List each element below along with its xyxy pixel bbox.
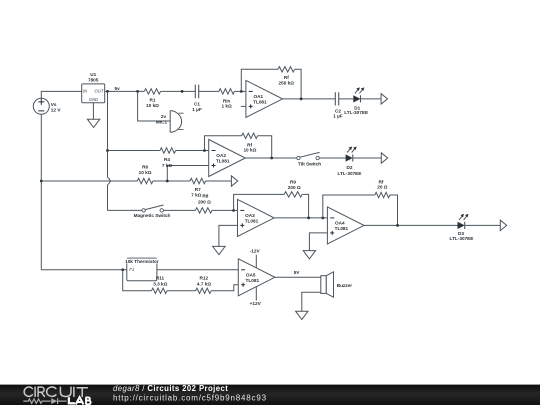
wire OA5 positive supply pin (255, 287, 257, 301)
wire Rin to OA1 inverting input (234, 90, 246, 92)
svg-text:LTL-307EE: LTL-307EE (344, 110, 368, 115)
voltage source VS 12V (33, 98, 61, 114)
svg-text:R9: R9 (290, 179, 296, 184)
svg-text:4.7 kΩ: 4.7 kΩ (197, 281, 211, 286)
wire lower branch to R11 (123, 270, 152, 291)
svg-text:OUT: OUT (95, 89, 104, 94)
wire R6 to R7 (153, 180, 190, 182)
svg-text:OA4: OA4 (335, 220, 345, 225)
svg-text:LTL-307EE: LTL-307EE (338, 171, 362, 176)
op-amp OA4 TL081 (327, 207, 364, 244)
svg-text:C1: C1 (194, 102, 200, 107)
op-amp OA1 TL081 (246, 80, 283, 117)
resistor R1 10k (144, 89, 160, 109)
feedback wire OA4 (323, 195, 398, 225)
svg-text:D2: D2 (347, 165, 353, 170)
wire R1 to C1 (161, 90, 196, 92)
junction OA4 feedback node (321, 217, 324, 220)
svg-text:200 Ω: 200 Ω (288, 185, 301, 190)
resistor R4 7k (160, 148, 176, 162)
LED D3 LTL-307EE (450, 214, 474, 241)
svg-text:-12V: -12V (250, 249, 261, 254)
resistor Rin 1k (219, 89, 235, 109)
wire switch to R8 (163, 209, 195, 211)
junction rail row2 (106, 149, 109, 152)
svg-text:TL081: TL081 (335, 226, 349, 231)
resistor Rf 20 ohm (OA4 feedback) (375, 180, 390, 198)
regulator U1 7805 (82, 72, 105, 103)
svg-text:C2: C2 (335, 108, 341, 113)
wire OA3 output to OA4 (274, 217, 327, 219)
svg-text:R6: R6 (142, 164, 148, 169)
wire rail to R6 (41, 180, 137, 182)
LED D2 LTL-307EE (338, 147, 362, 176)
svg-text:GND: GND (89, 97, 98, 102)
svg-text:12 V: 12 V (51, 108, 62, 113)
wire rail to R4 (108, 150, 161, 152)
svg-text:R12: R12 (199, 276, 208, 281)
thermistor F1 10k box (123, 258, 160, 281)
wire R4 to OA2 inverting input (176, 150, 209, 152)
junction left rail row R6 (40, 180, 43, 183)
ground OA4 (303, 251, 315, 259)
svg-text:+12V: +12V (250, 301, 262, 306)
op-amp OA2 TL081 (209, 140, 246, 177)
junction OA3 output/feedback (307, 217, 310, 220)
wire to microphone MIC1 (138, 91, 171, 121)
output port row1 (381, 94, 387, 104)
ground below U1 (87, 119, 99, 127)
wire C2 to D1 (339, 98, 354, 100)
svg-text:5v: 5v (115, 86, 121, 91)
feedback wire OA3 (234, 194, 309, 218)
resistor Rf 10k (OA2 feedback) (242, 133, 258, 152)
capacitor C2 1uF (333, 92, 343, 118)
resistor R7 7k (190, 178, 206, 197)
svg-text:Magnetic Switch: Magnetic Switch (134, 213, 171, 218)
wire thermistor to OA5 inverting input (157, 269, 238, 271)
svg-text:Rf: Rf (284, 75, 289, 80)
svg-text:OA1: OA1 (254, 94, 264, 99)
wire C1 to Rin (199, 90, 219, 92)
wire tilt switch to D2 (319, 157, 345, 159)
feedback wire OA2 (205, 136, 272, 158)
ground OA3 (213, 246, 225, 254)
output port R7 (231, 176, 237, 186)
CircuitLab logo squiggle (resistor + diode) (23, 398, 66, 404)
output port row3 (500, 220, 506, 230)
svg-text:Buzzer: Buzzer (337, 283, 353, 288)
svg-text:OA3: OA3 (245, 213, 255, 218)
wire buzzer to ground (302, 292, 321, 311)
capacitor C1 1uF (192, 85, 202, 112)
junction OA4 output/feedback (396, 224, 399, 227)
svg-text:1 µF: 1 µF (192, 107, 202, 112)
svg-text:TL081: TL081 (216, 159, 230, 164)
svg-text:F1: F1 (129, 267, 134, 272)
wire D1 to output port (361, 98, 382, 100)
resistor Rf 250k (OA1 feedback) (278, 67, 295, 86)
junction OA1 feedback node (240, 90, 243, 93)
svg-text:TL081: TL081 (245, 218, 259, 223)
junction R1/mic (136, 90, 139, 93)
wire D3 to output port (465, 224, 501, 226)
svg-text:10 kΩ: 10 kΩ (243, 147, 256, 152)
svg-text:TL081: TL081 (246, 278, 260, 283)
svg-text:LTL-307EE: LTL-307EE (450, 236, 474, 241)
svg-text:200 Ω: 200 Ω (198, 200, 211, 205)
tilt switch SW (297, 152, 322, 166)
CircuitLab logo LAB lettering (69, 397, 91, 404)
svg-text:Tilt Switch: Tilt Switch (298, 162, 321, 167)
wire R7 to port (206, 180, 232, 182)
resistor R11 3.3k (152, 276, 168, 294)
wire D2 to output port (353, 157, 381, 159)
wire U1 GND pin (92, 103, 94, 120)
svg-text:http://circuitlab.com/c5f9b9n8: http://circuitlab.com/c5f9b9n848c93 (113, 393, 267, 402)
junction OA2 feedback node (203, 149, 206, 152)
svg-text:10 kΩ: 10 kΩ (139, 170, 152, 175)
wire 5v rail vertical with hop (107, 91, 109, 177)
wire OA1 output to C2 (283, 98, 336, 100)
microphone MIC1 2v (156, 111, 184, 133)
svg-text:degar8 / Circuits 202 Project: degar8 / Circuits 202 Project (113, 384, 228, 393)
CircuitLab logo CIRCUIT lettering (24, 387, 87, 397)
op-amp OA3 TL081 (238, 199, 275, 236)
svg-text:U1: U1 (90, 72, 96, 77)
svg-text:OA5: OA5 (246, 272, 256, 277)
svg-text:R7: R7 (195, 187, 201, 192)
junction R1-C1 (181, 90, 184, 93)
wire OA5 output to buzzer (275, 276, 321, 278)
junction OA1 output/feedback (300, 98, 303, 101)
wire OA4 output to D3 (364, 224, 458, 226)
output port row2 (381, 153, 387, 163)
magnetic switch SW (134, 205, 171, 218)
svg-text:TL081: TL081 (253, 99, 267, 104)
feedback wire OA1 (241, 69, 301, 99)
wire OA2 output to tilt switch (245, 157, 296, 159)
buzzer BZ1 (321, 272, 352, 297)
svg-text:R11: R11 (156, 276, 165, 281)
svg-text:1 kΩ: 1 kΩ (221, 104, 232, 109)
svg-text:20 Ω: 20 Ω (377, 185, 388, 190)
svg-text:7805: 7805 (88, 77, 99, 82)
footer bar (0, 385, 540, 405)
svg-text:7 kΩ: 7 kΩ (191, 192, 202, 197)
svg-text:10k Thermistor: 10k Thermistor (125, 259, 159, 264)
wire OA4 non-inverting to ground (309, 233, 327, 251)
wire R12 to OA5 non-inverting input (211, 285, 238, 291)
ground buzzer (296, 311, 308, 319)
svg-text:MIC1: MIC1 (156, 119, 168, 124)
resistor R12 4.7k (196, 276, 212, 294)
wire left rail from Vs down (40, 114, 42, 269)
junction thermistor node (121, 268, 124, 271)
svg-text:3.3 kΩ: 3.3 kΩ (153, 281, 167, 286)
junction 5v rail (106, 90, 109, 93)
wire OA1 non-inverting stub (241, 105, 246, 107)
wire OA5 negative supply pin (255, 255, 257, 268)
op-amp OA5 TL081 (238, 259, 275, 296)
svg-text:R8: R8 (202, 193, 208, 198)
resistor R6 10k (137, 164, 153, 183)
junction OA3 feedback node (232, 209, 235, 212)
wire left rail to thermistor (41, 269, 127, 271)
svg-text:Rin: Rin (223, 98, 231, 103)
svg-text:7 kΩ: 7 kΩ (162, 163, 173, 168)
junction OA2 output/feedback (270, 157, 273, 160)
svg-text:10 kΩ: 10 kΩ (146, 103, 159, 108)
wire OA2 non-inverting input (167, 166, 208, 182)
svg-text:5V: 5V (294, 270, 301, 275)
svg-text:R4: R4 (164, 157, 170, 162)
svg-text:R1: R1 (150, 98, 156, 103)
svg-text:Vs: Vs (51, 102, 57, 107)
junction OA2 plus branch (166, 180, 169, 183)
wire rail to magnetic switch (108, 209, 142, 211)
wire R11 to R12 (167, 290, 196, 292)
wire Vs to U1 input (41, 91, 81, 98)
LED D1 LTL-307EE (344, 87, 368, 115)
wire R8 to OA3 inverting input (212, 209, 238, 211)
svg-text:1 µF: 1 µF (333, 114, 343, 119)
resistor R9 200 ohm (OA3 feedback) (284, 179, 302, 197)
wire U1 out to R1 (105, 90, 145, 92)
resistor R8 200 ohm (195, 193, 212, 213)
svg-text:250 kΩ: 250 kΩ (279, 81, 295, 86)
svg-text:OA2: OA2 (216, 153, 226, 158)
wire OA3 non-inverting to ground (219, 225, 238, 246)
